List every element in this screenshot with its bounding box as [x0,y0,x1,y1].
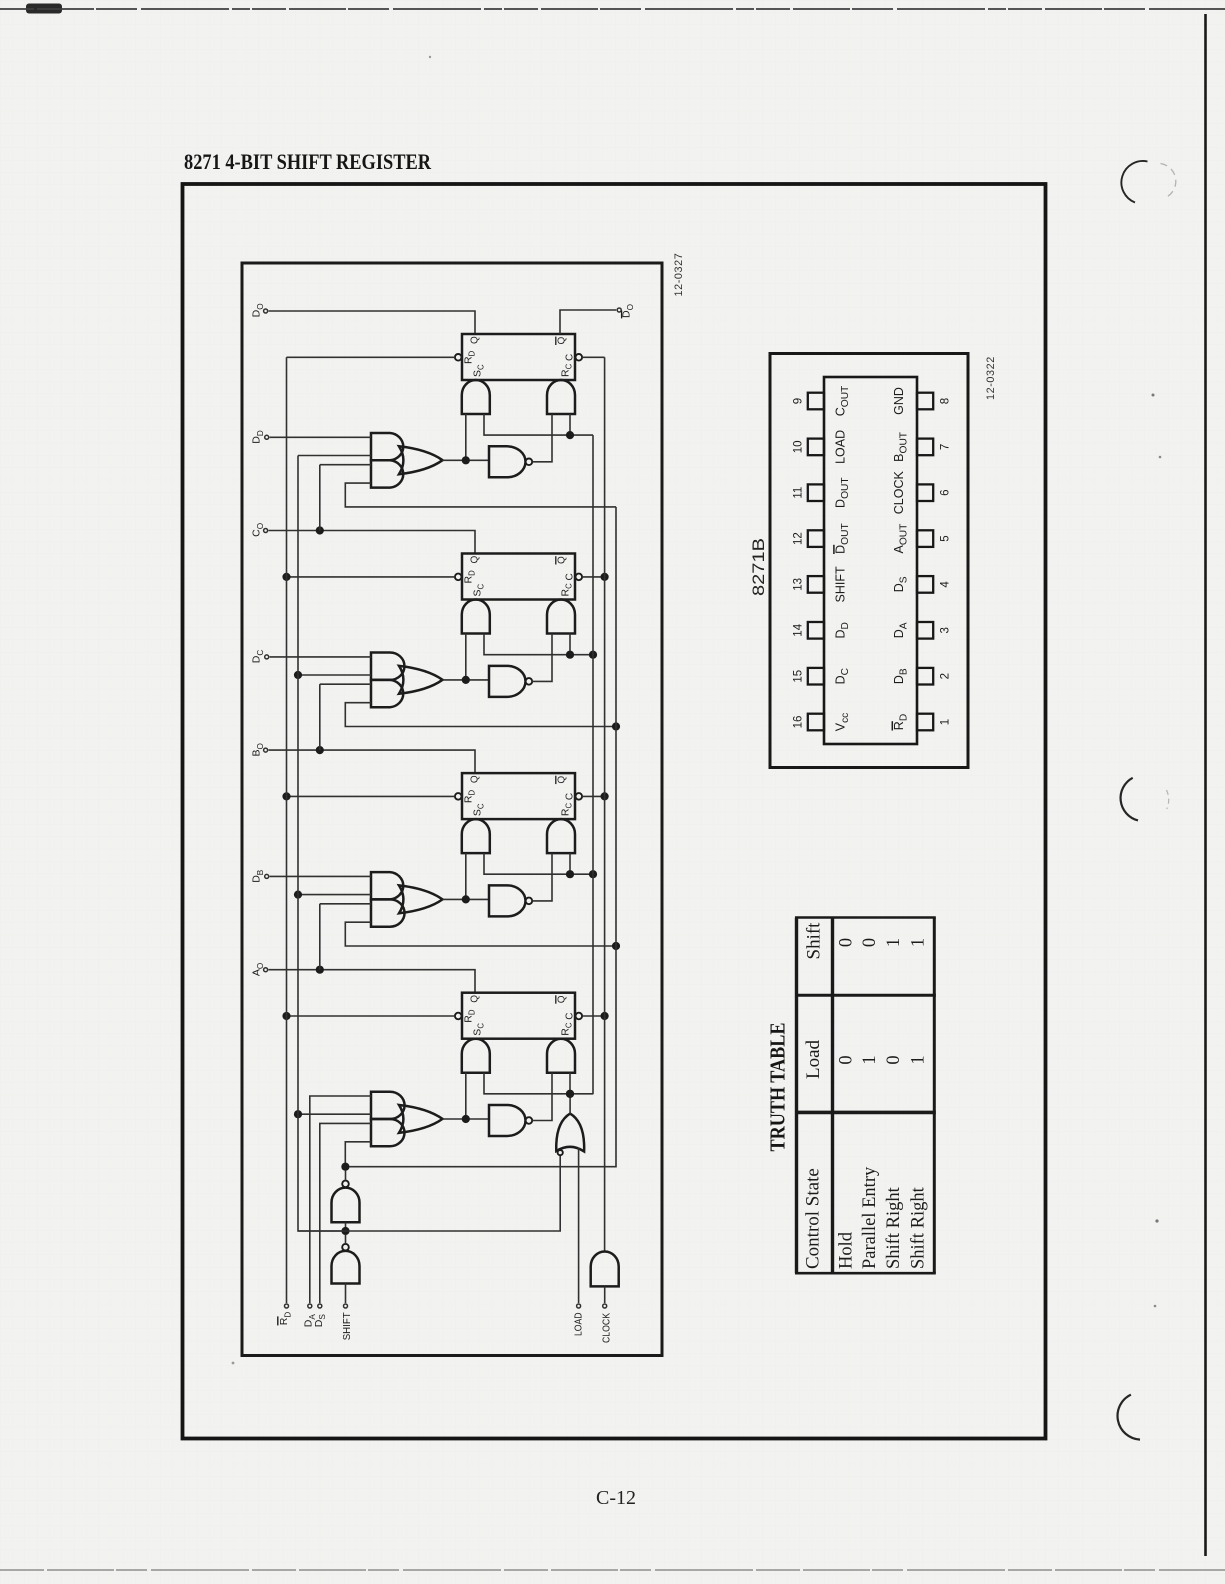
wire shift-enable to shift AND stage D [345,483,616,507]
shift AND gate stage B [371,899,405,926]
wire load-enable to load AND stage D [298,455,371,457]
terminal DD [265,435,269,439]
svg-text:9: 9 [793,398,805,404]
terminal DS [318,1304,322,1308]
wire gate-enable link stage C [484,634,593,655]
IC package body [824,377,917,744]
scan right edge line [1204,14,1207,1556]
wire hold OR output [569,1094,571,1114]
svg-text:8271 4-BIT SHIFT REGISTER: 8271 4-BIT SHIFT REGISTER [184,149,432,174]
svg-text:13: 13 [793,578,805,591]
svg-text:1: 1 [940,719,952,725]
pin 16 box [808,714,824,731]
render filter [0,0,1,1]
wire reset-AND right input stage A [569,1073,571,1094]
flip-flop U4 RD input bubble [455,1013,462,1020]
junction reset bus stage B [282,792,290,800]
truth table column divider Load/ControlState [795,1111,936,1115]
wire serial data from CO to shift AND stage D [320,464,371,466]
flip-flop U3 body [462,773,575,819]
punch hole 3 [1118,1395,1140,1440]
terminal DO [264,309,268,313]
data OR gate stage D [399,446,443,474]
svg-text:0: 0 [836,938,856,947]
load AND gate stage B [371,872,403,899]
punch hole 1 [1121,161,1147,203]
wire NAND out to reset AND stage D [532,414,552,462]
svg-text:14: 14 [793,623,805,636]
truth table header rule (top) [795,918,798,1274]
wire LOAD to hold OR [578,1148,580,1304]
wire reset-AND right input stage B [569,853,571,874]
junction reset-AND enable stage C [566,651,574,659]
junction load-enable bus stage B [294,891,302,899]
wire inverter2 input [345,1222,347,1227]
junction clock bus stage A [601,1012,609,1020]
NAND inverter 1 bubble [342,1244,349,1251]
svg-text:1: 1 [860,1055,880,1064]
wire gate-enable link stage A [484,1073,593,1094]
terminal LOAD [577,1304,581,1308]
terminal CLOCK [603,1304,607,1308]
junction reset bus stage A [282,1012,290,1020]
junction enable bus stage B [589,870,597,878]
clock buffer AND gate [591,1252,619,1287]
flip-flop U2 body [462,554,575,600]
pin 13 box [808,576,824,593]
svg-text:Control State: Control State [803,1168,824,1269]
wire inverter2 output [345,1170,347,1181]
svg-text:CLOCK: CLOCK [602,1313,613,1343]
svg-text:Shift Right: Shift Right [908,1186,928,1269]
wire inverted shift to hold OR [298,1156,560,1231]
flip-flop U1 C input bubble [576,354,583,361]
wire Q output net AO [269,970,476,993]
NAND gate stage B [489,885,526,916]
svg-text:C: C [565,793,576,800]
pin 6 box [917,484,933,501]
load AND gate stage C [371,653,404,680]
stray specks [1152,394,1155,397]
svg-text:0: 0 [884,1055,904,1064]
svg-text:Load: Load [803,1039,824,1079]
hold OR gate [556,1114,584,1152]
wire reset-AND right input stage C [569,634,571,655]
junction hold OR to gate-enable bus [566,1090,574,1098]
flip-flop U1 body [462,334,575,380]
junction reset-AND enable stage A [566,1090,574,1098]
junction shift-enable bus stage C [612,722,620,730]
svg-text:C: C [565,354,576,361]
outer figure border [183,184,1046,1439]
wire serial data from AO to shift AND stage B [320,903,371,905]
pin 2 box [917,668,933,685]
reset AND gate stage A [547,1039,575,1073]
junction clock bus stage B [601,792,609,800]
pin 14 box [808,622,824,639]
svg-text:SHIFT: SHIFT [342,1312,353,1340]
wire load-enable to load AND stage C [298,674,371,676]
svg-text:Q: Q [470,995,481,1003]
flip-flop U4 C input bubble [576,1013,583,1020]
svg-text:12: 12 [793,532,805,545]
wire CO feedback up to stage D shift AND [319,465,321,531]
svg-text:3: 3 [940,627,952,633]
truth table header rule (bottom) [831,918,834,1274]
pin 12 box [808,530,824,547]
junction shift inverter 2 output [341,1163,349,1171]
wire OR output stage C [443,679,490,681]
terminal AO [264,968,268,972]
svg-text:0: 0 [836,1055,856,1064]
wire set-AND input from data OR stage C [465,634,467,680]
svg-text:4: 4 [940,581,952,588]
wire NAND out to reset AND stage A [532,1073,552,1121]
wire Qbar to DObar terminal [560,310,616,334]
wire set-AND input from data OR stage A [465,1073,467,1119]
set AND gate stage D [462,380,490,414]
svg-text:CLOCK: CLOCK [892,471,906,515]
data OR gate stage B [399,885,443,913]
wire set-AND input from data OR stage D [465,414,467,460]
svg-text:TRUTH TABLE: TRUTH TABLE [766,1023,790,1152]
wire set-AND input from data OR stage B [465,853,467,899]
wire reset-AND right input stage D [569,414,571,435]
wire shift-enable to shift AND stage A [345,1142,371,1167]
wire shift-enable to shift AND stage B [345,922,616,946]
NAND gate stage A [489,1105,526,1136]
reset AND gate stage B [547,819,575,853]
svg-text:7: 7 [940,444,952,450]
wire NAND out to reset AND stage C [532,634,552,682]
data OR gate stage C [399,666,443,694]
svg-text:8: 8 [940,398,952,404]
wire load-enable bus [298,456,346,1232]
junction reset-AND enable stage D [566,431,574,439]
truth table column divider Shift/Load [795,994,936,997]
pin 5 box [917,530,933,547]
wire OR output stage D [443,459,490,461]
junction OR output node stage A [462,1115,470,1123]
svg-text:Q: Q [557,776,568,784]
junction OR output node stage D [462,456,470,464]
wire U2 RD to reset bus [287,576,455,578]
terminal DObar [617,308,621,312]
NAND inverter 2 (shift enable) [332,1188,360,1223]
terminal DA [308,1304,312,1308]
terminal CO [264,529,268,533]
pin 8 box [917,393,933,410]
wire BO feedback up to stage C shift AND [319,684,321,750]
wire CLOCK terminal riser [604,1286,606,1303]
overline for DOUTbar [833,545,835,554]
punch hole 2 [1121,778,1138,821]
pin 3 box [917,622,933,639]
terminal SHIFT [344,1304,348,1308]
truth table outer edge line (Shift side) [795,916,936,919]
svg-text:1: 1 [908,1055,928,1064]
wire U4 C to clock bus [582,1015,605,1017]
shift AND gate stage C [371,680,403,707]
NAND gate stage D [489,446,526,477]
pin 9 box [808,393,824,410]
svg-text:Q: Q [557,337,568,345]
wire U1 C to clock bus [582,356,605,358]
flip-flop U2 C input bubble [576,574,583,581]
set AND gate stage C [462,600,490,634]
svg-text:Q: Q [557,995,568,1003]
junction enable bus stage C [589,651,597,659]
junction reset bus stage C [282,573,290,581]
svg-text:1: 1 [908,938,928,947]
wire parallel data DB to load AND [270,875,371,877]
wire load-enable to load AND stage B [298,894,371,896]
junction shift-enable bus stage B [612,942,620,950]
wire U4 RD to reset bus [287,1015,455,1017]
terminal DB [265,874,269,878]
svg-text:LOAD: LOAD [834,430,848,464]
None [285,1304,289,1308]
wire U2 C to clock bus [582,576,605,578]
pinout figure border [770,354,968,768]
junction BO to shift-AND of stage above [316,746,324,754]
junction reset-AND enable stage B [566,870,574,878]
flip-flop U3 RD input bubble [455,793,462,800]
junction CO to shift-AND of stage above [316,526,324,534]
scan corner blob [26,4,62,14]
junction OR output node stage C [462,676,470,684]
wire clock bus [604,357,606,1251]
svg-text:Parallel Entry: Parallel Entry [860,1166,880,1269]
wire Q output net BO [269,750,476,773]
wire SHIFT terminal riser [345,1284,347,1304]
wire parallel data DD to load AND [270,436,371,438]
svg-text:0: 0 [860,938,880,947]
NAND inverter 2 bubble [342,1181,349,1188]
junction load-enable bus stage C [294,671,302,679]
reset AND gate stage D [547,380,575,414]
scan bottom edge line [0,1569,1225,1571]
set AND gate stage A [462,1039,490,1073]
svg-text:2: 2 [940,673,952,679]
svg-text:C: C [565,1012,576,1019]
wire NAND out to reset AND stage B [532,853,552,901]
scan top edge line [0,8,1225,10]
pin 11 box [808,484,824,501]
svg-text:12-0322: 12-0322 [985,356,997,400]
flip-flop U4 body [462,993,575,1039]
set AND gate stage B [462,819,490,853]
NAND inverter 1 (shift input) [332,1251,360,1284]
wire shift-enable bus [345,507,616,1167]
svg-text:1: 1 [884,938,904,947]
truth table outer edge line (Control side) [795,1272,936,1275]
pin 15 box [808,668,824,685]
svg-text:C-12: C-12 [596,1487,636,1509]
svg-text:16: 16 [793,716,805,729]
reset AND gate stage C [547,600,575,634]
flip-flop U1 RD input bubble [455,354,462,361]
svg-text:11: 11 [793,487,805,499]
pin 1 box [917,714,933,731]
overline for RDbar pin label [891,721,893,730]
svg-text:5: 5 [940,535,952,541]
load AND gate stage D [371,433,403,460]
flip-flop U3 C input bubble [576,793,583,800]
load AND gate stage A [371,1092,405,1119]
svg-text:12-0327: 12-0327 [673,253,685,297]
svg-text:C: C [565,573,576,580]
svg-text:Q: Q [470,556,481,564]
flip-flop U2 RD input bubble [455,574,462,581]
junction clock bus stage C [601,573,609,581]
data OR gate stage A [399,1105,443,1133]
svg-text:Q: Q [557,556,568,564]
wire inverter1 output [345,1234,347,1244]
pin 7 box [917,439,933,456]
svg-text:SHIFT: SHIFT [834,566,848,602]
wire U3 C to clock bus [582,795,605,797]
svg-text:Q: Q [470,336,481,344]
wire gate-enable link stage B [484,853,593,874]
junction OR output node stage B [462,895,470,903]
svg-text:8271B: 8271B [750,538,768,596]
shift AND gate stage D [371,460,403,487]
svg-text:LOAD: LOAD [574,1313,585,1337]
wire reset bus [286,357,288,1303]
pin 4 box [917,576,933,593]
svg-text:6: 6 [940,489,952,495]
truth table right edge rule [933,918,936,1274]
wire U1 RD to reset bus [287,356,455,358]
wire gate-enable bus [592,435,594,1094]
wire shift-enable to shift AND stage C [345,703,616,727]
pin 10 box [808,439,824,456]
wire AO feedback up to stage B shift AND [319,904,321,970]
wire parallel data DC to load AND [270,656,371,658]
svg-text:15: 15 [793,670,805,683]
hold OR bubble input [558,1150,563,1155]
svg-text:Shift Right: Shift Right [884,1186,904,1269]
wire U3 RD to reset bus [287,795,455,797]
schematic inner border [242,263,662,1356]
NAND gate stage C [489,666,526,697]
terminal DC [265,655,269,659]
svg-text:Hold: Hold [836,1231,856,1269]
wire OR output stage A [443,1118,490,1120]
svg-text:Q: Q [470,775,481,783]
wire Q output net DO [269,311,476,334]
svg-text:10: 10 [793,441,805,454]
junction AO to shift-AND of stage above [316,966,324,974]
svg-text:GND: GND [892,387,906,415]
wire gate-enable link stage D [484,414,593,435]
wire DA input to load AND stage A [310,1096,371,1303]
wire serial data from BO to shift AND stage C [320,683,371,685]
terminal BO [264,748,268,752]
junction load-enable bus stage A [294,1110,302,1118]
wire OR output stage B [443,898,490,900]
wire load-enable to load AND stage A [298,1113,371,1115]
svg-text:Shift: Shift [804,922,825,960]
wire DS input to shift AND stage A [320,1123,371,1303]
wire Q output net CO [269,531,476,554]
junction shift inverted node [341,1227,349,1235]
shift AND gate stage A [371,1119,405,1146]
